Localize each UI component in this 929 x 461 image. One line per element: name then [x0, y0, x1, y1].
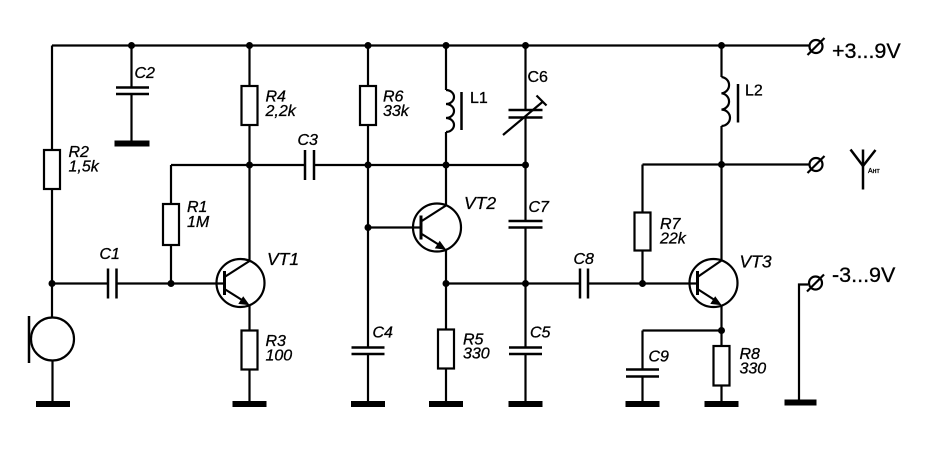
node VT2 emitter row [443, 280, 450, 287]
node C6 top [522, 42, 529, 49]
svg-text:VT1: VT1 [267, 249, 299, 269]
svg-text:C9: C9 [649, 349, 670, 366]
wire antenna row [643, 163, 810, 165]
wire C6 to row [524, 118, 526, 166]
node R4/C3 row [246, 162, 253, 169]
wire L2 to antenna row [720, 126, 722, 165]
wire R1 to base row [170, 245, 172, 284]
wire rail to C2 [130, 46, 132, 88]
wire C4 to ground [367, 354, 369, 401]
microphone BM1 [31, 318, 74, 361]
capacitor C9 [626, 368, 659, 371]
wire R4 to feedback row [248, 125, 250, 165]
wire R2 to mic node [51, 189, 53, 284]
svg-text:C4: C4 [373, 325, 394, 342]
node R7 bottom [639, 280, 646, 287]
resistor R7 [635, 213, 651, 251]
ground (R3) [233, 401, 267, 407]
node R4 top [246, 42, 253, 49]
wire C3 to tank row [314, 164, 526, 166]
wire rail to R4 [248, 46, 250, 87]
wire VT3 collector [720, 165, 722, 262]
ground (R5) [429, 401, 463, 407]
resistor R4 [242, 86, 258, 125]
svg-text:-3...9V: -3...9V [832, 263, 896, 287]
wire emitter row VT2 to C8 [446, 282, 580, 284]
capacitor C3 [304, 150, 307, 180]
node VT3 emitter [718, 327, 725, 334]
capacitor C8 [579, 269, 582, 299]
inductor L1 [446, 90, 454, 132]
wire rail to L2 [720, 46, 722, 78]
node L2 bottom [718, 161, 725, 168]
wire R7 top [641, 165, 643, 213]
wire rail to L1 [445, 46, 447, 91]
wire R3 to ground [248, 370, 250, 402]
resistor R3 [242, 331, 258, 370]
ground (C2) [115, 141, 150, 147]
resistor R8 [714, 346, 730, 386]
wire node to microphone [51, 284, 53, 319]
node R6/row [365, 162, 372, 169]
wire base row mic to C1 [52, 282, 108, 284]
svg-text:C8: C8 [574, 251, 595, 268]
node C2 top [128, 42, 135, 49]
capacitor C2 [116, 86, 149, 89]
antenna symbol [862, 150, 865, 190]
wire C6 node to C7 [524, 165, 526, 221]
resistor R5 [438, 330, 454, 369]
wire rail to C6 [524, 46, 526, 111]
node C6 bottom [522, 162, 529, 169]
wire C1 to VT1 base [117, 282, 226, 284]
svg-text:+3...9V: +3...9V [832, 39, 901, 63]
node mic/C1 junction [49, 280, 56, 287]
terminal -3...9V [809, 277, 822, 290]
capacitor C4 [352, 346, 385, 349]
wire VT3 emitter to R8 [720, 331, 722, 347]
svg-text:Ант: Ант [868, 168, 881, 175]
node VT2 base branch [365, 224, 372, 231]
wire emitter node to R5 [445, 284, 447, 330]
transistor VT1 [217, 259, 265, 307]
svg-text:VT2: VT2 [464, 193, 496, 213]
svg-text:L1: L1 [470, 90, 488, 107]
svg-text:2,2k: 2,2k [265, 103, 297, 120]
svg-text:C2: C2 [135, 65, 156, 82]
wire VT1 emitter to R3 [248, 305, 250, 331]
wire rail to R6 [367, 46, 369, 87]
wire C5 to ground [524, 354, 526, 401]
ground (R8) [705, 401, 739, 407]
wire VT2 base [368, 226, 422, 228]
resistor R2 [44, 150, 60, 189]
svg-text:100: 100 [266, 347, 293, 364]
node L1 top [443, 42, 450, 49]
resistor R6 [360, 86, 376, 125]
ground (C4) [351, 401, 385, 407]
ground (C5) [509, 401, 543, 407]
svg-text:C6: C6 [528, 69, 549, 86]
ground (-3...9V) [785, 400, 817, 406]
svg-text:1M: 1M [187, 214, 210, 231]
svg-text:1,5k: 1,5k [69, 158, 100, 175]
inductor L2 [722, 77, 730, 126]
node R1/base row [168, 280, 175, 287]
svg-text:L2: L2 [745, 83, 763, 100]
svg-text:330: 330 [463, 346, 490, 363]
capacitor C7 [509, 220, 543, 223]
wire microphone to ground [51, 361, 53, 402]
svg-text:22k: 22k [659, 230, 687, 247]
wire -3...9V terminal to ground [799, 285, 808, 401]
ground (microphone) [36, 401, 70, 407]
wire R6 row to VT2 base node [367, 165, 369, 228]
svg-text:C1: C1 [100, 246, 120, 263]
terminal +3...9V [810, 40, 823, 53]
wire C8 to VT3 base [588, 282, 698, 284]
wire top rail [52, 44, 809, 46]
svg-text:C5: C5 [530, 325, 551, 342]
transistor VT3 [690, 259, 738, 307]
svg-text:C3: C3 [298, 132, 319, 149]
wire L1 to row [445, 132, 447, 165]
wire node to C5 [524, 284, 526, 348]
wire node down to C4 [367, 228, 369, 348]
svg-text:330: 330 [740, 360, 767, 377]
resistor R1 [163, 204, 179, 245]
wire R6 to row [367, 125, 369, 165]
terminal antenna output [810, 158, 823, 171]
node L1 bottom [443, 162, 450, 169]
svg-text:VT3: VT3 [740, 251, 772, 271]
capacitor C6 (variable) [509, 109, 543, 112]
capacitor C5 [509, 346, 542, 349]
node R6 top [365, 42, 372, 49]
svg-text:33k: 33k [383, 103, 410, 120]
wire R8 to ground [720, 386, 722, 402]
svg-text:C7: C7 [529, 199, 551, 216]
transistor VT2 [413, 204, 461, 252]
wire left branch down from rail to R2 [51, 46, 53, 151]
wire R7 bottom [641, 251, 643, 284]
wire C2 to ground [130, 94, 132, 141]
node L2 top [718, 42, 725, 49]
wire VT2 emitter [445, 250, 447, 284]
wire VT2 collector [445, 165, 447, 206]
wire C7 to emitter row [524, 228, 526, 284]
ground (C9) [626, 401, 660, 407]
wire VT1 collector [248, 165, 250, 261]
wire feedback row R1 to C3 [171, 164, 305, 166]
wire R5 to ground [445, 369, 447, 402]
capacitor C1 [107, 269, 110, 299]
wire emitter node to C9 [643, 329, 722, 331]
node C7/C5 row [522, 280, 529, 287]
wire VT3 emitter [720, 305, 722, 331]
wire R1 top from feedback row [170, 165, 172, 204]
wire C9 to ground [641, 377, 643, 402]
